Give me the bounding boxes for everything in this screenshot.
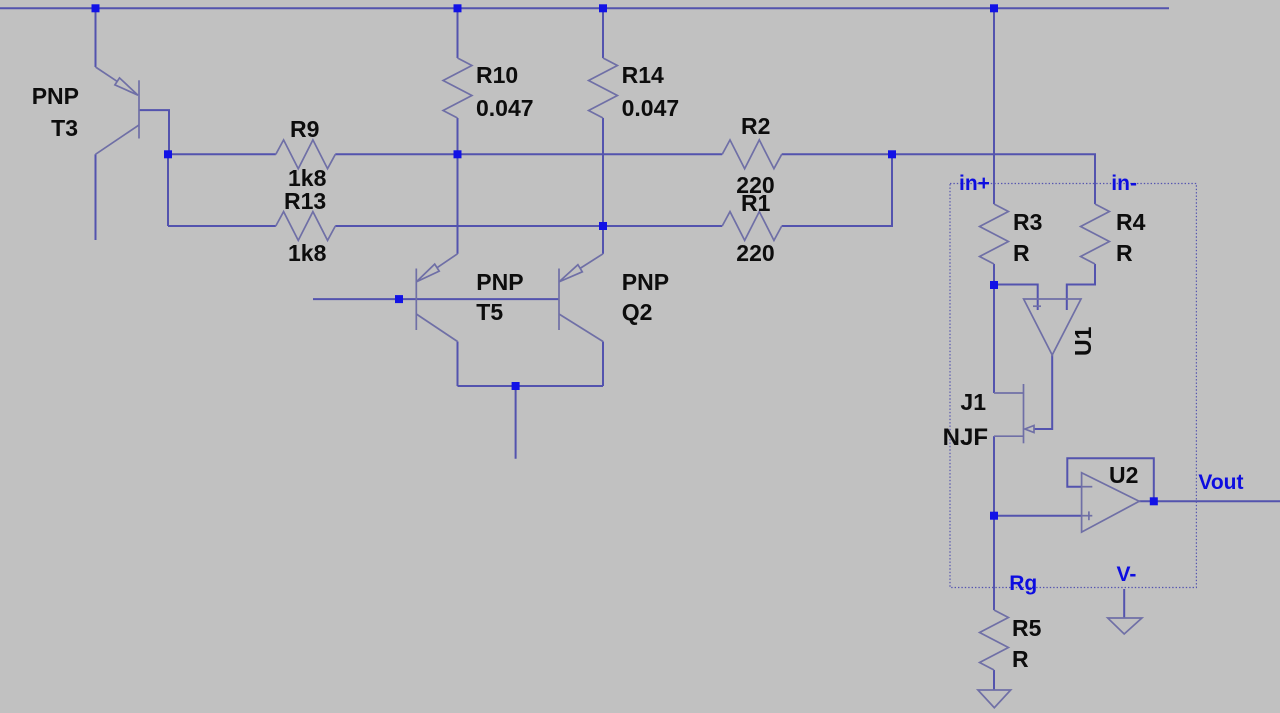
node R3 U1 J1 (990, 281, 998, 289)
svg-text:R1: R1 (741, 190, 771, 216)
wire R4 top lead is in row A; R4 bottom path (1067, 264, 1095, 310)
wire node to row B (167, 154, 169, 226)
transistor T5 (416, 254, 457, 342)
wire T3 collector lead (95, 154, 97, 240)
wire R10 bottom lead (457, 118, 459, 154)
wire row B middle segment (335, 225, 722, 227)
wire J1 source down (993, 436, 995, 516)
resistor R9 (276, 140, 336, 169)
svg-text:PNP: PNP (476, 269, 523, 295)
wire U2 feedback loop (1067, 458, 1154, 501)
wire R3 bottom lead (993, 264, 995, 285)
svg-text:in+: in+ (959, 172, 990, 195)
node T5 base (395, 295, 403, 303)
wire R5 bottom lead (993, 670, 995, 690)
wire row A right segment to R4 (782, 154, 1095, 204)
svg-text:T3: T3 (51, 115, 78, 141)
svg-text:Q2: Q2 (622, 299, 653, 325)
node U2 output feedback (1150, 497, 1158, 505)
wire row A left segment (168, 153, 276, 155)
wire R14 top lead (602, 8, 604, 58)
svg-text:R3: R3 (1013, 209, 1042, 235)
wire J1 source to R5 (993, 516, 995, 610)
wire Q2 emitter lead (602, 226, 604, 254)
resistor R10 (443, 58, 472, 118)
svg-text:R9: R9 (290, 116, 319, 142)
wire R14 bottom lead (602, 118, 604, 226)
svg-text:R10: R10 (476, 62, 518, 88)
svg-text:PNP: PNP (622, 269, 669, 295)
node T3 base row A (164, 150, 172, 158)
svg-text:Vout: Vout (1198, 471, 1243, 494)
svg-text:U2: U2 (1109, 462, 1138, 488)
wire U2 plus input lead (994, 515, 1082, 517)
resistor R1 (722, 212, 782, 241)
wire U2 output Vout (1139, 500, 1280, 502)
op-amp U1 (1024, 299, 1081, 355)
wire in+ column (993, 8, 995, 204)
wire tail stub down (515, 386, 517, 459)
svg-text:R5: R5 (1012, 615, 1042, 641)
svg-text:R: R (1012, 646, 1029, 672)
svg-text:PNP: PNP (32, 83, 79, 109)
svg-text:J1: J1 (960, 389, 986, 415)
wire base row T5 Q2 (313, 298, 559, 300)
wire T3 base to node (139, 110, 169, 154)
wire row B right segment (782, 154, 892, 226)
ground under R5 (978, 690, 1011, 708)
svg-text:1k8: 1k8 (288, 240, 327, 266)
svg-text:0.047: 0.047 (622, 95, 680, 121)
transistor Q2 (559, 254, 603, 342)
transistor T3 (96, 67, 140, 154)
node rail-R14 (599, 4, 607, 12)
svg-text:V-: V- (1117, 563, 1137, 586)
svg-text:R4: R4 (1116, 209, 1146, 235)
dashed box instrumentation amp (950, 184, 1196, 588)
wire R10 top lead (457, 8, 459, 58)
node R10 row A (454, 150, 462, 158)
wire J1 drain vertical (993, 285, 995, 393)
svg-text:R2: R2 (741, 113, 770, 139)
wire row A middle segment (335, 153, 722, 155)
resistor R14 (589, 58, 618, 118)
wire U1 output to J1 gate (1034, 355, 1052, 429)
wire top supply rail (0, 7, 1169, 9)
transistor J1 (994, 384, 1034, 443)
node R14 row B (599, 222, 607, 230)
node rail-R10 (454, 4, 462, 12)
node rail-in+ (990, 4, 998, 12)
resistor R4 (1081, 204, 1110, 264)
svg-text:NJF: NJF (943, 424, 988, 451)
wire U1 plus input lead (994, 285, 1038, 311)
svg-text:Rg: Rg (1009, 572, 1037, 595)
wire tail bottom (458, 385, 604, 387)
node R2 R1 join (888, 150, 896, 158)
svg-text:T5: T5 (476, 299, 503, 325)
svg-text:0.047: 0.047 (476, 95, 534, 121)
op-amp U2 (1082, 473, 1140, 532)
wire V- ground lead (1123, 589, 1125, 618)
svg-text:R13: R13 (284, 188, 326, 214)
svg-text:R: R (1013, 240, 1030, 266)
svg-text:R: R (1116, 240, 1133, 266)
svg-text:in-: in- (1111, 172, 1137, 195)
resistor R13 (276, 212, 336, 241)
node rail-T3 (92, 4, 100, 12)
resistor R5 (980, 610, 1009, 670)
svg-text:220: 220 (736, 240, 774, 266)
node tail junction (512, 382, 520, 390)
wire Q2 collector lead (602, 342, 604, 387)
node J1 source U2 (990, 512, 998, 520)
svg-text:R14: R14 (622, 62, 664, 88)
wire T5 collector lead (457, 342, 459, 387)
ground V- (1108, 618, 1142, 634)
wire T3 emitter lead (95, 8, 97, 67)
svg-text:U1: U1 (1070, 326, 1096, 356)
wire row B left segment (168, 225, 276, 227)
resistor R3 (980, 204, 1009, 264)
resistor R2 (722, 140, 782, 169)
wire T5 emitter lead (457, 154, 459, 254)
